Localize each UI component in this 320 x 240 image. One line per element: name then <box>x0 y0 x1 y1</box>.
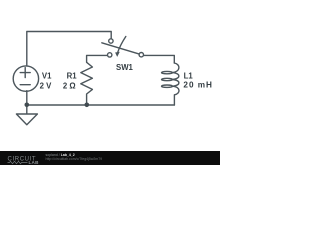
svg-text:2 V: 2 V <box>40 81 53 90</box>
svg-text:2 Ω: 2 Ω <box>63 81 76 90</box>
svg-text:L1: L1 <box>184 72 194 81</box>
svg-text:LAB: LAB <box>29 160 40 165</box>
svg-text:R1: R1 <box>67 71 78 80</box>
svg-text:SW1: SW1 <box>116 63 134 72</box>
svg-text:20 mH: 20 mH <box>183 81 213 90</box>
svg-text:http://circuitlab.com/c/7feg4j: http://circuitlab.com/c/7feg4j5w2m79 <box>46 157 103 161</box>
svg-text:V1: V1 <box>42 72 52 81</box>
